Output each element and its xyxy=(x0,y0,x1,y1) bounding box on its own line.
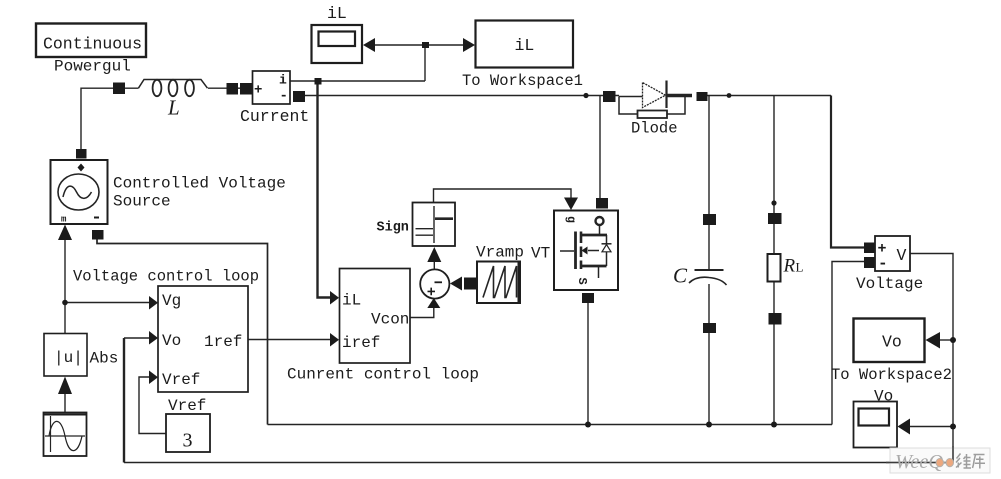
diode D1 xyxy=(619,81,692,119)
ToWorkspace1 block xyxy=(476,21,574,68)
wire iL feedback down to current control loop (thick) xyxy=(318,81,331,298)
wire Sign output to VT gate xyxy=(434,189,572,202)
junction dot at diode output xyxy=(727,93,732,98)
wire right branch down to voltage sensor plus xyxy=(831,96,864,248)
wire resistor branch upper xyxy=(773,96,775,255)
arrowhead into ToWorkspace2 xyxy=(926,332,941,349)
arrowhead into ToWorkspace1 xyxy=(463,38,475,52)
wire iL tee up to scope line xyxy=(424,45,426,81)
wire Vg branch to voltage control loop xyxy=(65,302,149,304)
wire CVS top port to inductor xyxy=(81,88,138,149)
port square diode right xyxy=(697,92,708,101)
wire Vcon output to sum junction xyxy=(410,308,434,318)
port square VT drain xyxy=(596,198,608,209)
wire diode cathode to right corner xyxy=(707,95,831,97)
port square current sensor output xyxy=(293,91,305,102)
arrowhead into Vo scope xyxy=(898,419,911,435)
wire Abs output up to CVS control input xyxy=(64,240,66,333)
resistor RL xyxy=(768,254,781,282)
watermark orange dots (letters oo) xyxy=(936,459,943,467)
wire Vref constant to voltage control loop xyxy=(139,377,166,434)
sine wave source xyxy=(44,413,87,457)
port square capacitor bottom xyxy=(703,323,716,333)
current sensor block xyxy=(253,71,291,104)
wire iL measurement from current sensor xyxy=(290,80,425,82)
wire main node: current sensor output to diode xyxy=(305,95,619,97)
iL scope block xyxy=(312,25,363,63)
bottom rail 2 (Vo feedback) xyxy=(124,462,953,464)
wire capacitor branch upper xyxy=(708,96,710,270)
port square Vramp output xyxy=(464,278,477,290)
voltage sensor block xyxy=(875,236,910,271)
port square capacitor top xyxy=(703,214,716,225)
wire capacitor branch lower xyxy=(708,284,710,425)
arrowhead into iL input xyxy=(330,291,339,305)
wire VT source to bottom rail xyxy=(587,303,589,425)
junction dot main node left xyxy=(583,93,588,98)
wire voltage sensor output down the right side xyxy=(910,254,953,463)
watermark CJK glyphs (wei ku) xyxy=(956,454,985,469)
ToWorkspace2 block xyxy=(854,319,925,363)
capacitor C xyxy=(689,270,727,285)
wire to ToWorkspace1 xyxy=(425,44,463,46)
wire voltage sensor minus down to bottom rail xyxy=(832,262,864,425)
wire resistor branch lower xyxy=(773,281,775,425)
arrowhead into sum from Vcon xyxy=(427,298,440,308)
wire CVS minus to bottom rail xyxy=(97,239,268,425)
wire to Vo scope xyxy=(910,426,953,428)
port square CVS minus xyxy=(92,230,104,240)
wire sum output to Sign block xyxy=(433,262,435,269)
junction dot iL measurement xyxy=(315,78,322,85)
wire inductor to current sensor xyxy=(208,87,252,89)
port square resistor bottom xyxy=(769,313,782,325)
wire node to VT drain xyxy=(599,96,601,199)
powergui block Continuous xyxy=(36,24,146,58)
port squares voltage sensor xyxy=(864,243,876,254)
junction dots right vertical xyxy=(950,337,956,343)
junction square main node / VT drain xyxy=(603,91,616,102)
arrowhead into iL scope xyxy=(363,38,375,52)
wire sine source to Abs xyxy=(64,394,66,412)
arrowhead into Vo input xyxy=(149,331,158,345)
wire Vo input to voltage control loop xyxy=(124,337,149,339)
Abs block xyxy=(44,334,87,377)
junction dot Vg branch xyxy=(62,300,68,306)
Vref constant block xyxy=(166,414,210,452)
Vo scope block xyxy=(854,402,898,448)
controlled voltage source U1 xyxy=(51,160,108,225)
bottom rail 1 (power return) xyxy=(268,424,833,426)
port square diode left xyxy=(605,92,616,102)
arrowhead sum to Sign xyxy=(427,247,441,262)
port squares inductor to current sensor xyxy=(227,83,239,95)
junction square iL tee xyxy=(422,42,429,48)
watermark box xyxy=(886,446,990,473)
arrowhead into Vg input xyxy=(149,296,158,310)
port square VT source xyxy=(582,293,594,303)
arrowhead Vramp into sum xyxy=(450,277,462,291)
port square resistor top xyxy=(768,213,782,224)
voltage control loop block xyxy=(158,286,248,392)
arrowhead into CVS control input xyxy=(58,225,72,241)
port square CVS top xyxy=(76,149,87,159)
junction dots on bottom rail 1 xyxy=(585,422,591,428)
wire Vo feedback vertical (thick) xyxy=(123,338,125,463)
inductor L xyxy=(138,80,207,97)
current control loop block xyxy=(340,269,411,364)
arrowhead into Abs input xyxy=(58,377,72,395)
arrowhead into Vref input xyxy=(149,371,158,385)
wire 1ref output to iref input xyxy=(248,339,330,341)
wire to ToWorkspace2 xyxy=(940,339,953,341)
sum junction xyxy=(420,269,449,298)
arrowhead into iref input xyxy=(330,333,339,347)
Vramp block xyxy=(477,262,520,304)
wire to iL scope xyxy=(375,44,425,46)
junction square on source wire xyxy=(113,83,125,95)
arrowhead into VT gate xyxy=(564,198,578,211)
Sign block xyxy=(413,203,456,247)
junction dot resistor branch xyxy=(771,200,776,205)
VT mosfet block xyxy=(554,211,618,291)
